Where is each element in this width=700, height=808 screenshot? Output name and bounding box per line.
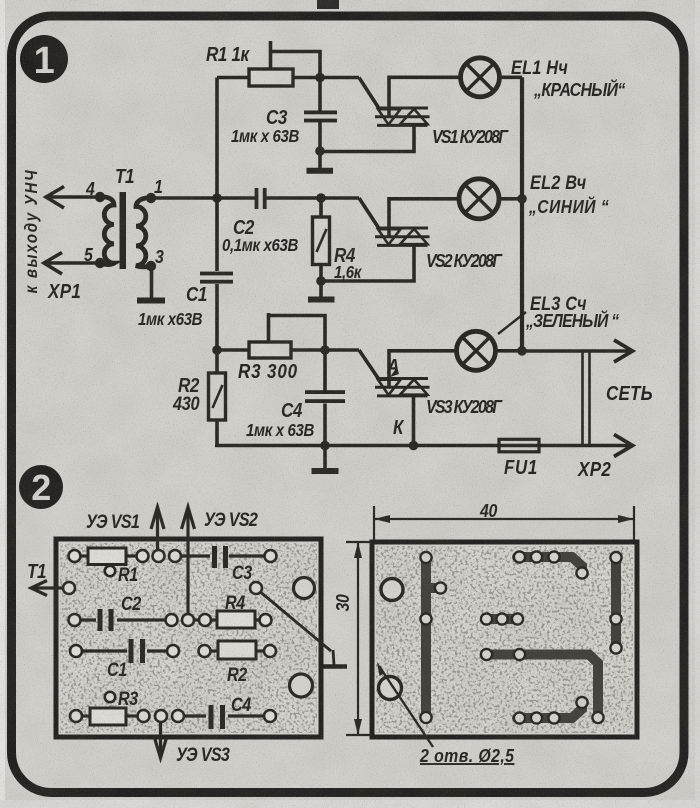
- arrow УЭ VS2 (long line to row2 pad): [182, 507, 195, 614]
- trace left vertical: [426, 557, 439, 718]
- wire node to VS3 diagonal: [325, 348, 359, 352]
- transformer T1 core: [120, 192, 127, 269]
- pcb wires row4: [82, 714, 264, 717]
- capacitor C2: [255, 188, 267, 209]
- leader line 2 holes: [377, 662, 433, 747]
- node C2/R4 junction: [316, 193, 326, 203]
- arrow mains bottom: [614, 435, 633, 457]
- wire R3 wiper tap: [267, 313, 271, 342]
- pcb wires row1: [79, 554, 265, 557]
- node VS3 cathode rail junction: [409, 441, 419, 451]
- top edge printing tab: [317, 0, 339, 9]
- wire R1 wiper tap: [269, 41, 273, 69]
- R3 wiper pin: [105, 692, 115, 702]
- arrow УЭ VS3 (down): [154, 722, 167, 758]
- resistor R3 on board: [90, 708, 126, 725]
- transformer T1 primary winding: [100, 197, 114, 265]
- resistor R1 on board: [88, 548, 126, 565]
- ground below T1 pin3: [137, 266, 165, 301]
- right board (copper side): [372, 542, 637, 737]
- anode pointer on VS3: [390, 367, 399, 377]
- resistor R2 (vertical, power mark): [209, 373, 226, 420]
- wire EL2 to right bus: [499, 197, 524, 201]
- lamp EL3: [457, 331, 496, 370]
- mounting hole top right: [294, 578, 315, 599]
- resistor R4 on board: [217, 611, 255, 628]
- dimension 40: [374, 506, 634, 540]
- wire C3 bus: [318, 78, 322, 112]
- wire right bus vertical: [520, 77, 524, 351]
- pads row2: [69, 614, 272, 626]
- section badge 2: [19, 465, 63, 509]
- wire EL1 to right bus: [500, 76, 523, 80]
- capacitor C3: [304, 111, 337, 123]
- wire left bus lower: [215, 284, 219, 373]
- pads row1: [69, 550, 277, 562]
- node C3/gate/ground junction: [315, 146, 325, 156]
- connector XP2 double line: [583, 351, 590, 446]
- wire VS1 gate return: [320, 125, 414, 151]
- wire R1 right lead: [293, 76, 320, 80]
- wire EL3 to right bus: [496, 349, 525, 353]
- wire R2 bottom to bottom rail: [215, 420, 219, 447]
- T1 pin 4 dot: [95, 192, 105, 202]
- dimension 30: [346, 542, 372, 735]
- ground below C4: [312, 446, 339, 471]
- pcb wires row3: [81, 649, 265, 652]
- node R3/C4 junction: [320, 345, 330, 355]
- trace big L: [486, 655, 598, 718]
- trace bottom L: [517, 703, 582, 718]
- wire R1 left lead: [217, 76, 249, 80]
- node R4/gate/ground junction: [316, 276, 326, 286]
- resistor R1: [249, 69, 293, 86]
- ground below C3: [307, 151, 334, 171]
- wire node to R3: [217, 348, 249, 352]
- wire VS3 cathode: [412, 396, 416, 446]
- pcb wires row2: [79, 618, 260, 621]
- wire R4 leads: [319, 198, 323, 217]
- left board (component side): [56, 539, 321, 737]
- wire C4 bus: [323, 350, 327, 391]
- wire mains top: [522, 349, 629, 353]
- R1 wiper pin: [105, 566, 115, 576]
- wire bus to C2: [217, 196, 255, 200]
- mounting hole top left: [381, 579, 403, 601]
- wire VS2 to EL2: [389, 199, 459, 236]
- wire bottom rail: [215, 444, 629, 448]
- trace right vertical: [611, 557, 621, 649]
- capacitor C4 on board: [209, 705, 226, 729]
- capacitor C1 on board: [129, 639, 146, 663]
- small ground mark: [323, 650, 347, 667]
- node EL2 right bus junction: [517, 194, 527, 204]
- wire C2 to node: [267, 196, 322, 200]
- wire T1 pin5 to XP1 arrow: [46, 261, 100, 265]
- wire T1 pin4 to XP1 arrow: [48, 195, 100, 199]
- wire T1 pin1 to bus: [151, 196, 217, 200]
- pads row3: [70, 645, 276, 657]
- wire R3 right lead: [291, 348, 325, 352]
- arrow to XP1 lower: [44, 253, 62, 275]
- resistor R4 (vertical, power mark): [313, 217, 330, 265]
- triac VS1: [375, 108, 430, 125]
- arrow mains top: [614, 340, 633, 362]
- node R1/C3 junction: [315, 73, 325, 83]
- pads on copper: [420, 551, 621, 723]
- wire VS1 to EL1: [389, 77, 461, 116]
- resistor R2 on board: [218, 641, 256, 659]
- capacitor C3 on board: [212, 546, 228, 568]
- capacitor C4: [305, 390, 345, 403]
- lamp EL1: [461, 58, 500, 97]
- trace top middle L: [517, 557, 582, 573]
- section badge 1: [20, 35, 68, 83]
- trace middle short: [486, 614, 518, 624]
- arrow УЭ VS1: [151, 507, 164, 550]
- node C1/R3 bus junction: [212, 345, 222, 355]
- capacitor C2 on board: [98, 609, 114, 631]
- wire VS3 to EL3: [389, 351, 457, 387]
- mounting hole bottom right: [290, 674, 313, 697]
- transformer T1 secondary winding: [136, 198, 151, 267]
- wire left bus vertical: [215, 78, 219, 272]
- T1 pin 3 dot: [146, 261, 156, 271]
- T1 pin 5 dot: [95, 258, 105, 268]
- lamp EL2: [459, 179, 499, 219]
- fuse FU1: [499, 439, 539, 452]
- leader line EL3 label: [498, 312, 526, 334]
- wire node to VS1 diagonal: [320, 76, 359, 80]
- T1 pin 1 dot: [146, 193, 156, 203]
- capacitor C1: [200, 272, 233, 284]
- T1 pad and arrow: [63, 582, 75, 594]
- triac VS3: [375, 379, 430, 396]
- node T1-C2 bus junction: [212, 193, 222, 203]
- wire node to VS2 diagonal: [321, 196, 359, 200]
- pads row4: [70, 710, 276, 722]
- node EL3 right bus junction: [517, 346, 527, 356]
- arrow to XP1 upper: [46, 187, 64, 209]
- pad for diagonal: [250, 582, 262, 594]
- wire VS2 gate return: [321, 245, 414, 281]
- diagonal lead to common: [258, 590, 331, 651]
- ground below R4: [308, 281, 335, 300]
- node C4/ground rail junction: [320, 441, 330, 451]
- triac VS2: [375, 228, 430, 245]
- resistor R3: [249, 342, 291, 358]
- mounting hole bottom left: [379, 677, 402, 700]
